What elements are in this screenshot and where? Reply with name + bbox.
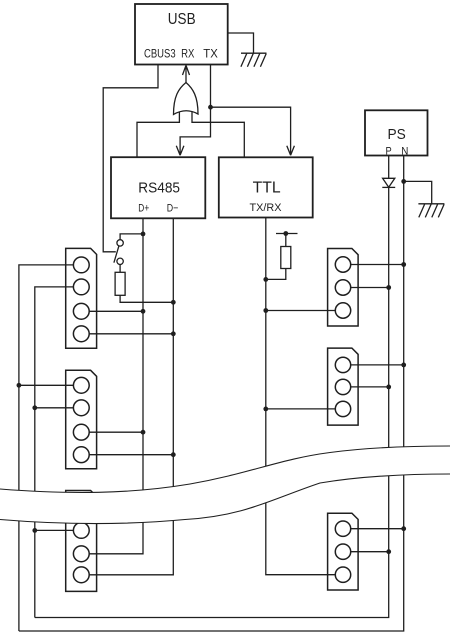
node D- L1 pin4 <box>171 331 176 336</box>
node left inner L2 pin2 <box>32 405 37 410</box>
wire D- bus <box>89 218 173 575</box>
wire OR left input to RS485 <box>137 110 179 157</box>
wire L2 pin3 <box>89 431 143 433</box>
connector J4 <box>328 249 359 327</box>
wire switch branch <box>120 234 143 240</box>
wire N bus <box>19 156 404 632</box>
wire R3 pin2 <box>351 551 389 553</box>
svg-text:N: N <box>401 145 408 157</box>
svg-text:RS485: RS485 <box>138 181 180 197</box>
node left inner L3 pin1 <box>32 528 37 533</box>
wire TTL bus <box>266 218 336 575</box>
wire R1 pin1 <box>351 264 404 266</box>
ground near PS <box>418 204 444 218</box>
wire TX branch to TTL <box>211 107 291 146</box>
wire left outer bus <box>19 265 74 631</box>
wire R2 pin1 <box>351 364 404 366</box>
wire L2 pin2 <box>35 407 74 409</box>
gate OR <box>174 83 199 115</box>
connector J6 <box>328 513 359 590</box>
node TTL resistor branch <box>263 277 268 282</box>
wire switch to resistor <box>119 265 121 273</box>
arrow into RS485 <box>176 146 184 156</box>
box TTL U3 <box>219 157 313 217</box>
wire P bus <box>35 156 389 618</box>
node P R1 pin2 <box>386 285 391 290</box>
wire L3 pin1 <box>35 529 74 531</box>
svg-text:TTL: TTL <box>253 180 281 197</box>
node N ground branch <box>401 179 406 184</box>
box RS485 U2 <box>111 157 205 218</box>
node TTL R2 pin3 <box>263 407 268 412</box>
ground near USB <box>241 53 267 67</box>
wire rail to resistor <box>285 234 287 247</box>
wire L2 pin4 <box>89 454 173 456</box>
wire resistor to D- <box>120 295 173 302</box>
wire R1 pin3 <box>266 310 336 312</box>
wire R1 pin2 <box>351 287 389 289</box>
node D- L2 pin4 <box>171 452 176 457</box>
wire resistor to TTL bus <box>266 269 286 280</box>
node P R3 pin2 <box>386 549 391 554</box>
node TX junction <box>208 105 213 110</box>
connector J3 <box>66 491 97 592</box>
node D- resistor branch <box>171 300 176 305</box>
svg-text:P: P <box>386 145 392 157</box>
wire OR output to USB RX with arrow <box>183 65 190 82</box>
svg-text:USB: USB <box>168 11 196 28</box>
node TTL R1 pin3 <box>263 308 268 313</box>
svg-text:RX: RX <box>181 48 195 60</box>
node N R1 pin1 <box>401 262 406 267</box>
node N R3 pin1 <box>401 526 406 531</box>
svg-text:CBUS3: CBUS3 <box>144 48 176 60</box>
resistor R1 <box>115 272 125 295</box>
resistor R2 <box>281 247 291 269</box>
wire left inner bus <box>35 287 74 618</box>
wire R2 pin3 <box>266 408 336 410</box>
wire CBUS3 to switch lever <box>103 65 158 252</box>
box USB U1 <box>135 4 228 65</box>
node D+ L1 pin3 <box>141 309 146 314</box>
wire D+ bus <box>89 218 143 554</box>
wire L2 pin1 <box>19 384 74 386</box>
arrow into TTL <box>287 146 295 156</box>
svg-text:TX: TX <box>203 48 218 60</box>
diode D1 <box>383 178 395 187</box>
svg-text:D−: D− <box>167 202 179 214</box>
wire N to ground <box>404 181 432 203</box>
connector J5 <box>328 348 359 425</box>
wire R3 pin1 <box>351 528 404 530</box>
wire USB to ground <box>228 33 254 53</box>
wire pull-up rail <box>276 233 298 235</box>
wire OR right input to TTL <box>192 110 244 157</box>
node pull-up rail junction <box>283 231 288 236</box>
svg-text:PS: PS <box>388 126 406 143</box>
wire R2 pin2 <box>351 386 389 388</box>
node P R2 pin2 <box>386 385 391 390</box>
svg-text:D+: D+ <box>138 202 149 214</box>
connector J1 <box>66 248 97 348</box>
node D+ switch branch <box>141 232 146 237</box>
node N R2 pin1 <box>401 363 406 368</box>
node left outer L2 pin1 <box>17 383 22 388</box>
connector J2 <box>66 370 97 469</box>
box PS U4 <box>365 110 428 157</box>
break band <box>0 446 450 524</box>
wire L1 pin4 <box>89 333 173 335</box>
switch SW1 <box>114 240 123 265</box>
wire L1 pin3 <box>89 310 143 312</box>
node D+ L2 pin3 <box>141 430 146 435</box>
svg-text:TX/RX: TX/RX <box>250 202 283 214</box>
wire USB TX down to branch <box>180 65 210 147</box>
